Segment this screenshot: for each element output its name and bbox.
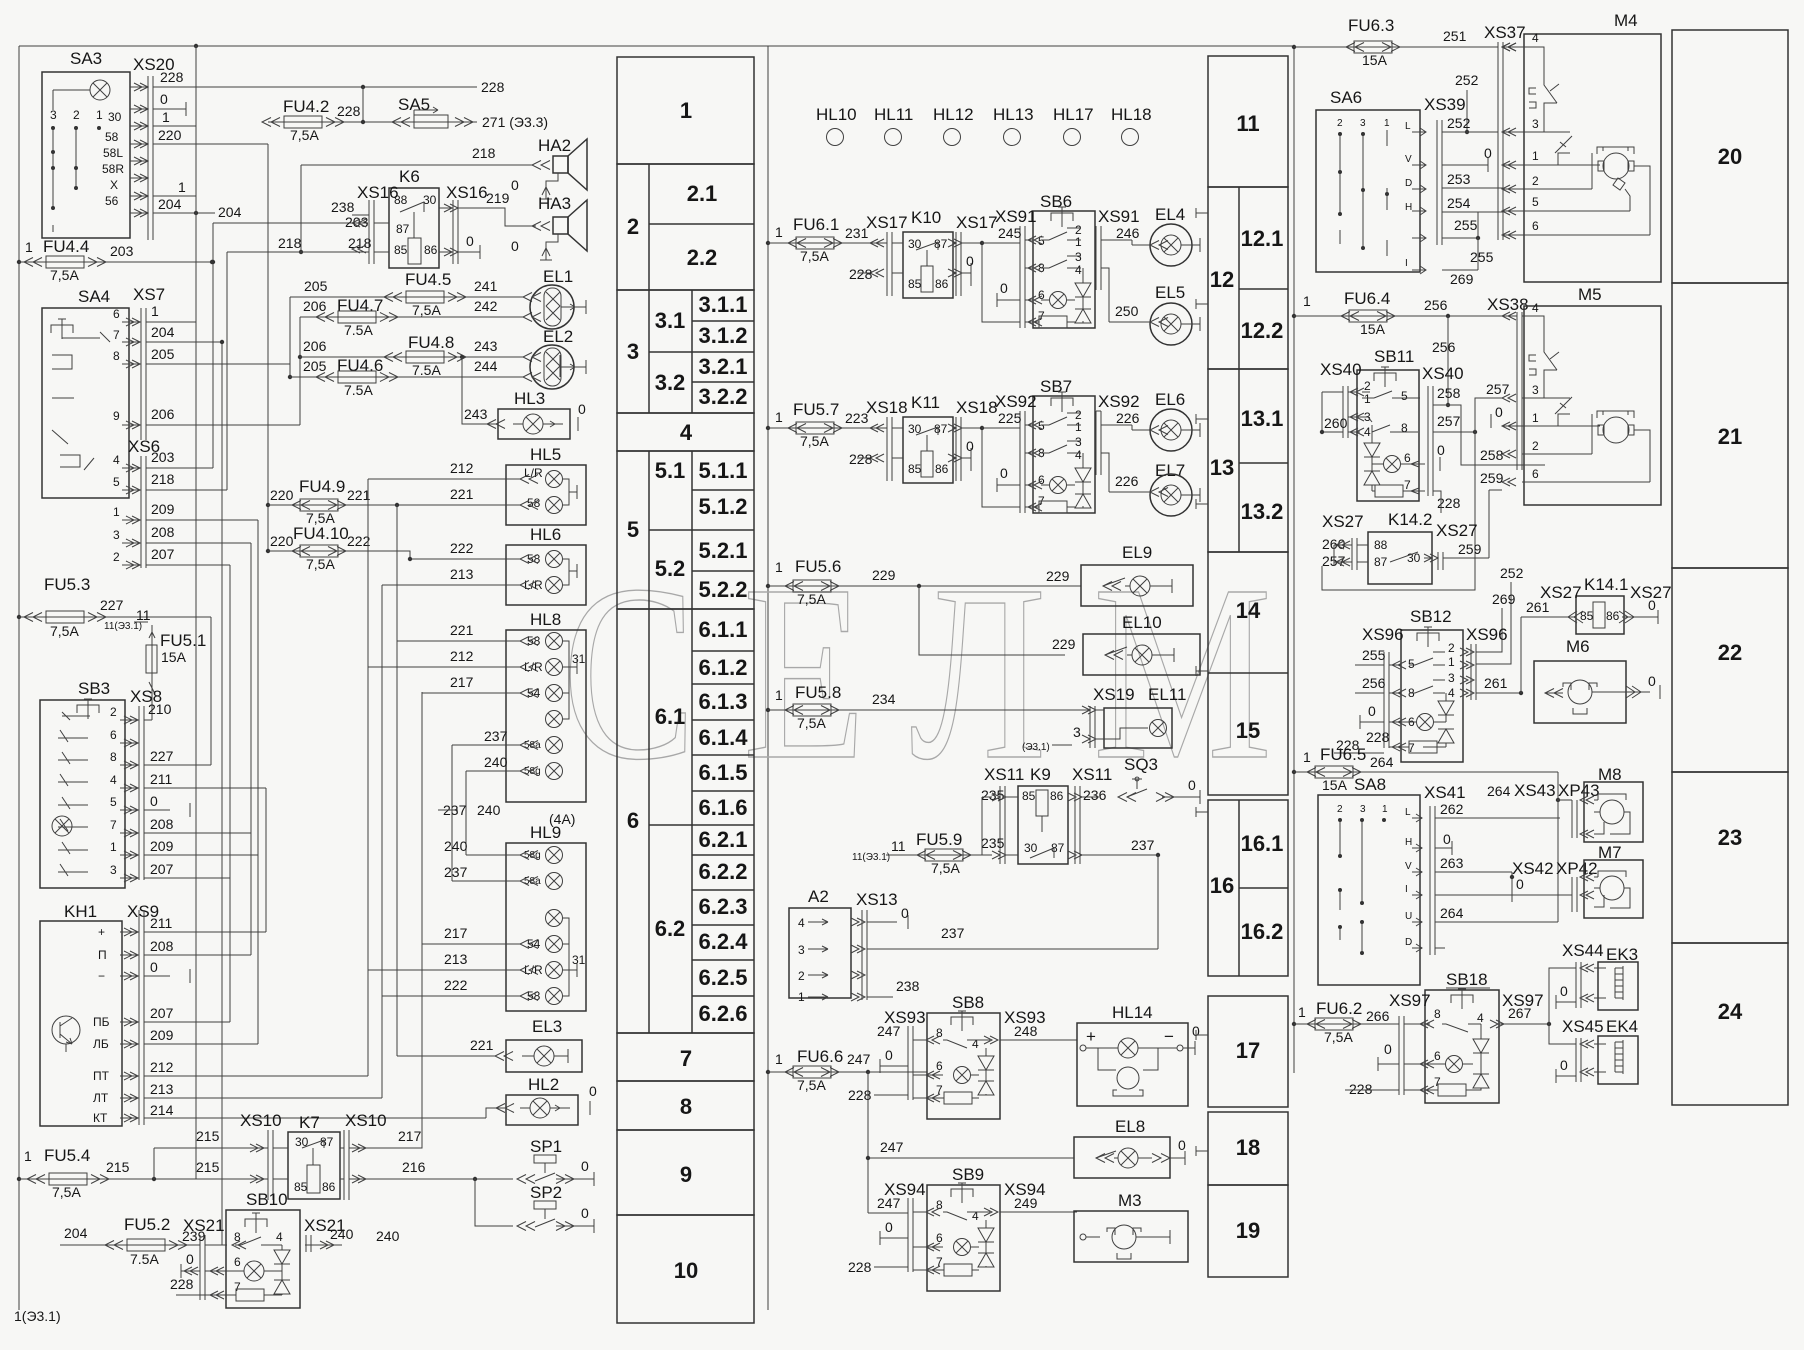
heater EK3 — [1549, 941, 1638, 1024]
svg-text:HL12: HL12 — [933, 105, 974, 124]
svg-text:3: 3 — [1532, 383, 1539, 397]
svg-text:1: 1 — [96, 108, 103, 122]
svg-text:XS18: XS18 — [866, 398, 908, 417]
svg-text:227: 227 — [100, 597, 124, 613]
svg-text:0: 0 — [150, 959, 158, 975]
svg-text:7,5A: 7,5A — [306, 556, 335, 572]
table column 1 — [617, 57, 754, 1323]
svg-text:13.1: 13.1 — [1241, 406, 1284, 431]
svg-text:0: 0 — [1178, 1137, 1186, 1153]
fuse FU6.3 — [1292, 16, 1498, 68]
connector XS17 right — [948, 213, 1020, 322]
connector XS38 — [1487, 295, 1529, 470]
svg-text:XS44: XS44 — [1562, 941, 1604, 960]
svg-text:L: L — [1405, 121, 1411, 132]
svg-text:7.5A: 7.5A — [130, 1251, 159, 1267]
svg-text:204: 204 — [218, 204, 242, 220]
svg-text:226: 226 — [1116, 410, 1140, 426]
svg-text:11(Э3.1): 11(Э3.1) — [852, 852, 890, 863]
svg-text:XS96: XS96 — [1362, 625, 1404, 644]
fuse FU6.2 — [1292, 999, 1399, 1045]
table column 3 — [1672, 30, 1788, 1105]
relay KH1 — [40, 902, 122, 1126]
svg-text:KH1: KH1 — [64, 902, 97, 921]
svg-text:220: 220 — [270, 533, 294, 549]
svg-text:D: D — [1405, 937, 1412, 948]
svg-text:1: 1 — [1303, 749, 1311, 765]
svg-text:SQ3: SQ3 — [1124, 755, 1158, 774]
lamp unit HL5 — [268, 445, 586, 525]
svg-text:7: 7 — [234, 1280, 241, 1294]
svg-text:0: 0 — [1560, 983, 1568, 999]
wire 245 — [982, 242, 1020, 244]
svg-text:−: − — [98, 969, 105, 983]
fuse FU5.9 — [852, 830, 982, 876]
svg-text:208: 208 — [150, 938, 174, 954]
selector switch SA8 — [1318, 775, 1420, 985]
svg-text:HL11: HL11 — [874, 105, 913, 124]
svg-text:SB12: SB12 — [1410, 607, 1452, 626]
fuse FU6.6 — [766, 1047, 927, 1213]
svg-text:FU5.3: FU5.3 — [44, 575, 90, 594]
svg-text:212: 212 — [150, 1059, 174, 1075]
svg-text:6.2.6: 6.2.6 — [699, 1001, 748, 1026]
svg-text:K10: K10 — [911, 208, 941, 227]
lamp EL7 — [1109, 461, 1200, 516]
svg-text:21: 21 — [1718, 424, 1742, 449]
svg-text:6.2.1: 6.2.1 — [699, 827, 748, 852]
junction top — [194, 44, 198, 48]
wire 220 — [153, 143, 268, 145]
svg-text:XS97: XS97 — [1389, 991, 1431, 1010]
svg-text:1: 1 — [1384, 118, 1390, 129]
svg-text:1: 1 — [1075, 235, 1082, 249]
wire verticals left bundle — [289, 297, 291, 377]
svg-text:XS10: XS10 — [345, 1111, 387, 1130]
svg-text:211: 211 — [150, 771, 173, 787]
svg-text:EK3: EK3 — [1606, 945, 1638, 964]
lamp unit HL8 — [368, 610, 586, 802]
fuse FU4.9 — [270, 477, 399, 526]
svg-text:XS92: XS92 — [1098, 392, 1140, 411]
svg-text:3.2: 3.2 — [655, 370, 686, 395]
svg-text:SP2: SP2 — [530, 1183, 562, 1202]
connector XS16 left — [331, 183, 399, 264]
svg-text:215: 215 — [196, 1159, 220, 1175]
svg-text:3: 3 — [113, 528, 120, 542]
svg-text:257: 257 — [1486, 381, 1510, 397]
svg-text:86: 86 — [935, 462, 949, 476]
svg-text:220: 220 — [158, 127, 182, 143]
wire 218 to K6 — [227, 251, 369, 253]
wire 1 — [153, 125, 196, 127]
svg-text:3: 3 — [1448, 671, 1455, 685]
svg-text:0: 0 — [511, 238, 519, 254]
svg-text:FU4.4: FU4.4 — [43, 237, 89, 256]
svg-text:254: 254 — [1447, 195, 1471, 211]
svg-text:XP42: XP42 — [1556, 859, 1598, 878]
svg-text:58: 58 — [105, 130, 119, 144]
svg-text:240: 240 — [484, 754, 508, 770]
svg-text:HA2: HA2 — [538, 136, 571, 155]
svg-text:205: 205 — [304, 278, 328, 294]
selector switch SA6 — [1316, 88, 1420, 272]
svg-text:6.1.3: 6.1.3 — [699, 689, 748, 714]
fuse FU4.4 — [17, 237, 214, 283]
svg-text:267: 267 — [1508, 1005, 1532, 1021]
svg-text:FU5.9: FU5.9 — [916, 830, 962, 849]
svg-text:255: 255 — [1454, 217, 1478, 233]
connector XS7 — [113, 285, 300, 440]
svg-text:FU6.4: FU6.4 — [1344, 289, 1390, 308]
svg-text:FU5.8: FU5.8 — [795, 683, 841, 702]
svg-text:5.2.2: 5.2.2 — [699, 577, 748, 602]
svg-text:241: 241 — [474, 278, 498, 294]
svg-text:3.2.2: 3.2.2 — [699, 384, 748, 409]
svg-text:6.2.5: 6.2.5 — [699, 965, 748, 990]
svg-text:228: 228 — [849, 266, 873, 282]
svg-text:XS45: XS45 — [1562, 1017, 1604, 1036]
svg-text:15A: 15A — [161, 649, 187, 665]
svg-text:3.2.1: 3.2.1 — [699, 354, 748, 379]
svg-text:6.1: 6.1 — [655, 704, 686, 729]
svg-text:217: 217 — [398, 1128, 422, 1144]
svg-text:3: 3 — [627, 339, 639, 364]
lamp unit HL9 — [368, 823, 586, 1011]
svg-text:XP43: XP43 — [1558, 781, 1600, 800]
svg-text:0: 0 — [1560, 1057, 1568, 1073]
speaker HA2 — [301, 136, 587, 199]
svg-text:19: 19 — [1236, 1218, 1260, 1243]
svg-text:238: 238 — [331, 199, 355, 215]
svg-text:215: 215 — [106, 1159, 130, 1175]
svg-text:58L: 58L — [103, 146, 123, 160]
wire 1b — [153, 195, 196, 197]
svg-text:207: 207 — [150, 1005, 174, 1021]
svg-text:7,5A: 7,5A — [50, 623, 79, 639]
left bus 1 — [18, 46, 20, 1310]
svg-text:0: 0 — [1648, 597, 1656, 613]
svg-text:4: 4 — [1364, 425, 1371, 439]
svg-text:2: 2 — [1532, 439, 1539, 453]
svg-text:K7: K7 — [299, 1113, 320, 1132]
svg-text:5.1.2: 5.1.2 — [699, 494, 748, 519]
svg-text:253: 253 — [1447, 171, 1471, 187]
svg-text:255: 255 — [1470, 249, 1494, 265]
svg-text:HL13: HL13 — [993, 105, 1034, 124]
svg-text:6: 6 — [627, 808, 639, 833]
svg-text:206: 206 — [303, 338, 327, 354]
svg-text:1: 1 — [680, 98, 692, 123]
svg-text:FU6.2: FU6.2 — [1316, 999, 1362, 1018]
svg-text:85: 85 — [294, 1180, 308, 1194]
svg-text:228: 228 — [848, 1259, 872, 1275]
svg-text:22: 22 — [1718, 640, 1742, 665]
svg-text:0: 0 — [466, 233, 474, 249]
svg-text:0: 0 — [581, 1205, 589, 1221]
electric motor unit M5 — [1491, 285, 1661, 505]
svg-text:SB9: SB9 — [952, 1165, 984, 1184]
connector XS9 — [120, 902, 507, 1125]
svg-text:214: 214 — [150, 1102, 174, 1118]
svg-text:1: 1 — [162, 109, 170, 125]
svg-text:SA8: SA8 — [1354, 775, 1386, 794]
wire 216 to SP1 — [349, 1178, 513, 1180]
connector XS20 — [130, 55, 505, 240]
svg-text:20: 20 — [1718, 144, 1742, 169]
svg-text:1: 1 — [1532, 411, 1539, 425]
svg-text:235: 235 — [981, 835, 1005, 851]
svg-text:L/R: L/R — [524, 660, 543, 674]
svg-text:5.1.1: 5.1.1 — [699, 458, 748, 483]
svg-text:FU5.1: FU5.1 — [160, 631, 206, 650]
svg-text:XS92: XS92 — [995, 392, 1037, 411]
svg-text:6.2: 6.2 — [655, 916, 686, 941]
svg-text:1: 1 — [110, 840, 117, 854]
svg-text:7: 7 — [110, 818, 117, 832]
svg-text:212: 212 — [450, 648, 474, 664]
connector XS10 left — [240, 1111, 282, 1200]
svg-text:12: 12 — [1210, 267, 1234, 292]
svg-text:217: 217 — [450, 674, 474, 690]
svg-text:7,5A: 7,5A — [800, 433, 829, 449]
svg-text:XS10: XS10 — [240, 1111, 282, 1130]
svg-text:FU6.3: FU6.3 — [1348, 16, 1394, 35]
fuse FU4.2 — [262, 85, 477, 143]
wire 264 to XS43 — [1556, 798, 1560, 802]
switch SB7 — [995, 377, 1140, 513]
svg-text:242: 242 — [474, 298, 498, 314]
svg-text:13: 13 — [1210, 455, 1234, 480]
svg-text:15A: 15A — [1322, 777, 1348, 793]
svg-text:HL8: HL8 — [530, 610, 561, 629]
svg-text:0: 0 — [1000, 280, 1008, 296]
svg-text:229: 229 — [1052, 636, 1076, 652]
svg-text:EL10: EL10 — [1122, 613, 1162, 632]
svg-text:31: 31 — [572, 953, 586, 967]
svg-text:EL4: EL4 — [1155, 205, 1185, 224]
connector XS19 — [1082, 685, 1135, 748]
svg-text:220: 220 — [270, 487, 294, 503]
electric motor unit M4 — [1502, 11, 1661, 282]
svg-text:6: 6 — [110, 728, 117, 742]
switch SB3 — [40, 679, 125, 888]
svg-text:2: 2 — [1337, 804, 1343, 815]
lamp EL11 — [1022, 685, 1186, 753]
svg-text:218: 218 — [472, 145, 496, 161]
svg-text:30: 30 — [1024, 841, 1038, 855]
mid verticals — [367, 479, 369, 1076]
control unit A2 — [789, 887, 851, 1004]
svg-text:9: 9 — [680, 1162, 692, 1187]
svg-text:5: 5 — [1408, 657, 1415, 671]
svg-text:XS11: XS11 — [984, 765, 1024, 784]
svg-text:XS16: XS16 — [446, 183, 488, 202]
svg-text:XS7: XS7 — [133, 285, 165, 304]
svg-text:7,5A: 7,5A — [412, 302, 441, 318]
svg-text:228: 228 — [170, 1276, 194, 1292]
svg-text:2: 2 — [113, 550, 120, 564]
svg-text:11: 11 — [1236, 111, 1259, 136]
lamp EL8 — [866, 1117, 1186, 1178]
svg-text:203: 203 — [345, 214, 369, 230]
svg-text:3.1: 3.1 — [655, 308, 686, 333]
wire 204 horiz — [213, 222, 368, 224]
svg-text:6.2.3: 6.2.3 — [699, 894, 748, 919]
svg-text:1: 1 — [113, 505, 120, 519]
switch SB11 — [1320, 347, 1464, 501]
svg-text:243: 243 — [464, 406, 488, 422]
svg-text:203: 203 — [151, 449, 175, 465]
svg-text:221: 221 — [450, 486, 474, 502]
svg-text:7,5A: 7,5A — [797, 715, 826, 731]
svg-text:A2: A2 — [808, 887, 829, 906]
lamp unit HL6 — [268, 525, 586, 605]
svg-text:264: 264 — [1370, 754, 1394, 770]
svg-text:L/R: L/R — [524, 578, 543, 592]
svg-text:15: 15 — [1236, 718, 1260, 743]
svg-text:XS43: XS43 — [1514, 781, 1556, 800]
svg-text:1(Э3.1): 1(Э3.1) — [14, 1308, 61, 1324]
svg-text:3: 3 — [1360, 118, 1366, 129]
wire stubs at table2 left edge — [1196, 208, 1208, 1156]
switch SB12 — [1334, 607, 1508, 762]
svg-text:6: 6 — [1434, 1049, 1441, 1063]
svg-text:SB6: SB6 — [1040, 192, 1072, 211]
svg-text:SB10: SB10 — [246, 1190, 288, 1209]
lamp EL4 — [1115, 205, 1200, 266]
svg-text:209: 209 — [150, 838, 174, 854]
fuse FU5.3 — [17, 575, 211, 765]
wire vertical bus 196 — [195, 46, 197, 1179]
svg-text:222: 222 — [450, 540, 474, 556]
svg-text:219: 219 — [486, 190, 510, 206]
switch SA5 — [392, 95, 548, 130]
svg-text:0: 0 — [150, 793, 158, 809]
svg-text:SP1: SP1 — [530, 1137, 562, 1156]
svg-text:228: 228 — [1366, 729, 1390, 745]
wires 257/258/259 to M5 — [1475, 398, 1502, 432]
switch SB6 — [995, 192, 1140, 328]
svg-text:6: 6 — [1532, 219, 1539, 233]
wire 261 from SB12 — [1476, 692, 1521, 694]
svg-text:0: 0 — [511, 177, 519, 193]
terminal 0 — [153, 108, 186, 110]
svg-text:3: 3 — [1075, 250, 1082, 264]
svg-text:SB8: SB8 — [952, 993, 984, 1012]
fuse FU5.4 — [17, 1146, 344, 1200]
svg-text:217: 217 — [444, 925, 468, 941]
svg-text:EL3: EL3 — [532, 1017, 562, 1036]
svg-text:256: 256 — [1432, 339, 1456, 355]
svg-text:1: 1 — [24, 1148, 32, 1164]
svg-text:8: 8 — [113, 349, 120, 363]
connector XS18 left — [849, 398, 908, 481]
svg-text:0: 0 — [1443, 831, 1451, 847]
svg-text:213: 213 — [450, 566, 474, 582]
svg-text:204: 204 — [158, 196, 182, 212]
relay K14.1 — [1521, 575, 1672, 634]
svg-text:6: 6 — [234, 1255, 241, 1269]
svg-text:4: 4 — [1477, 1011, 1484, 1025]
svg-text:XS37: XS37 — [1484, 23, 1526, 42]
svg-text:211: 211 — [150, 915, 173, 931]
speaker HA3 — [511, 194, 587, 260]
connector XS41 — [1405, 783, 1560, 955]
switch SA4 — [42, 287, 129, 498]
connector XS10 right — [344, 1111, 387, 1200]
svg-text:5: 5 — [627, 517, 639, 542]
svg-text:86: 86 — [322, 1180, 336, 1194]
svg-text:243: 243 — [474, 338, 498, 354]
svg-text:D: D — [1405, 178, 1412, 189]
svg-text:4: 4 — [1532, 301, 1539, 315]
svg-text:248: 248 — [1014, 1023, 1038, 1039]
heater EK4 — [1549, 1017, 1638, 1084]
svg-text:236: 236 — [1083, 787, 1107, 803]
svg-text:6.1.6: 6.1.6 — [699, 795, 748, 820]
connector XS18 right — [948, 398, 1020, 507]
fuse FU4.5 — [290, 270, 523, 318]
svg-text:229: 229 — [1046, 568, 1070, 584]
svg-text:0: 0 — [885, 1047, 893, 1063]
svg-text:+: + — [98, 925, 105, 939]
heater fan M8 — [1514, 765, 1643, 842]
svg-text:4: 4 — [972, 1037, 979, 1051]
svg-text:FU4.9: FU4.9 — [299, 477, 345, 496]
svg-text:237: 237 — [444, 864, 468, 880]
svg-text:EL5: EL5 — [1155, 283, 1185, 302]
svg-text:П: П — [98, 948, 107, 962]
svg-text:XS11: XS11 — [1072, 765, 1112, 784]
svg-text:HL3: HL3 — [514, 389, 545, 408]
svg-text:SB18: SB18 — [1446, 970, 1488, 989]
svg-text:7: 7 — [113, 328, 120, 342]
lamp EL5 — [1109, 283, 1200, 345]
svg-text:V: V — [1405, 861, 1412, 872]
svg-text:227: 227 — [150, 748, 174, 764]
svg-text:V: V — [1405, 154, 1412, 165]
svg-text:XS27: XS27 — [1322, 512, 1364, 531]
svg-text:7,5A: 7,5A — [797, 591, 826, 607]
svg-text:4: 4 — [798, 916, 805, 930]
svg-text:(Э3.1): (Э3.1) — [1022, 742, 1050, 753]
svg-text:6.1.1: 6.1.1 — [699, 617, 748, 642]
svg-text:7,5A: 7,5A — [50, 267, 79, 283]
svg-text:HL14: HL14 — [1112, 1003, 1153, 1022]
svg-text:7: 7 — [1404, 478, 1411, 492]
svg-text:1: 1 — [775, 1051, 783, 1067]
svg-text:228: 228 — [160, 69, 184, 85]
svg-text:239: 239 — [182, 1228, 206, 1244]
svg-text:208: 208 — [151, 524, 175, 540]
watermark — [562, 534, 1319, 812]
svg-text:10: 10 — [674, 1258, 698, 1283]
svg-text:264: 264 — [1440, 905, 1464, 921]
connector XS11 left — [981, 765, 1024, 864]
svg-text:5: 5 — [1532, 195, 1539, 209]
lamp EL6 — [1115, 390, 1200, 451]
switch SB18 — [1345, 970, 1551, 1103]
svg-text:FU5.2: FU5.2 — [124, 1215, 170, 1234]
svg-text:2: 2 — [1448, 641, 1455, 655]
svg-text:8: 8 — [110, 750, 117, 764]
lamp EL9 — [1046, 543, 1193, 606]
svg-text:FU4.2: FU4.2 — [283, 97, 329, 116]
relay K10 — [903, 208, 953, 298]
svg-text:4: 4 — [972, 1209, 979, 1223]
svg-text:4: 4 — [113, 453, 120, 467]
